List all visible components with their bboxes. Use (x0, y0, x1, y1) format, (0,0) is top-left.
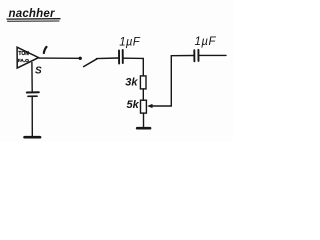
capacitor C1 right plate (122, 50, 124, 63)
capacitor C2 left plate (193, 50, 195, 61)
wire: corner down to R1 (142, 58, 144, 76)
R2 wiper arrowhead (147, 104, 152, 108)
wire: U1 bottom down to C3 (31, 63, 33, 91)
wire: corner up to C2 (170, 56, 172, 106)
switch S1 blade (open) (84, 59, 97, 67)
capacitor C1 left plate (118, 50, 120, 63)
pickup amp U1 (triangle) (17, 47, 38, 68)
svg-text:3k: 3k (125, 77, 138, 89)
potentiometer R2 body (141, 100, 147, 113)
svg-text:5k: 5k (127, 99, 140, 111)
wire: to C2 left plate (171, 55, 193, 57)
wire: C2 to right edge (199, 54, 226, 56)
wire: wiper to corner (151, 105, 172, 107)
ground (under R2) (137, 127, 150, 130)
wire: C1 to corner (124, 57, 143, 59)
wire: C3 to ground (31, 97, 33, 136)
wire: U1 output to switch (39, 57, 79, 59)
wire: switch to C1 (96, 57, 118, 60)
capacitor C2 right plate (197, 50, 199, 61)
svg-text:S: S (35, 66, 42, 77)
svg-text:TON: TON (18, 51, 29, 57)
svg-text:1µF: 1µF (195, 36, 217, 48)
svg-text:1µF: 1µF (119, 37, 140, 49)
node: switch contact dot (79, 57, 82, 60)
wire: R1 to R2 (142, 89, 144, 100)
svg-text:FA.O: FA.O (18, 58, 29, 64)
capacitor C3 top plate (27, 91, 39, 93)
wire: R2 bottom to ground (143, 113, 145, 127)
title underline (double) (7, 18, 60, 20)
resistor R1 body (140, 76, 146, 89)
output mark (squiggle) (44, 47, 47, 53)
capacitor C3 bottom plate (28, 95, 37, 97)
ground (bottom left) (25, 136, 40, 139)
